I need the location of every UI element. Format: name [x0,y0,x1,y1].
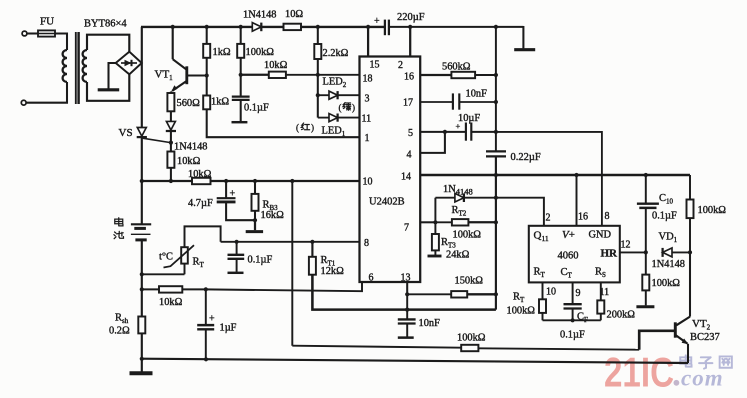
wire bridge to ground [109,63,116,89]
svg-text:t°C: t°C [159,252,173,263]
ground bridge [98,88,120,91]
svg-text:1N4148: 1N4148 [652,259,685,270]
svg-text:13: 13 [401,273,411,284]
resistor 100k mid right [645,252,647,274]
wire ground bus bottom [141,359,688,363]
svg-text:RT: RT [193,257,205,270]
svg-text:0.1µF: 0.1µF [244,103,269,114]
resistor 1k lower [206,76,208,96]
wire fuse to transformer primary [55,34,67,51]
wire supply bus [141,180,192,182]
ground RB3 [246,230,263,233]
junction 560k rail top [494,25,498,29]
capacitor 0.1uF upper [240,75,242,96]
svg-text:200kΩ: 200kΩ [607,310,636,321]
junction cap 0.1uF-2 [235,240,239,244]
resistor 100k bottom [461,345,478,351]
transistor VT2 BC237 [689,252,691,316]
resistor 100k top right [689,175,691,200]
junction 560k rail [494,73,498,77]
svg-text:10µF: 10µF [458,113,480,124]
wire pin4 to pin5 [420,132,445,153]
svg-text:CF: CF [577,312,588,325]
junction battery 10k row [140,287,144,291]
resistor RB3 16k [254,181,256,194]
resistor 10k to pin18 [269,72,286,78]
resistor RT2 100k [452,219,469,225]
junction 2.2k top [316,25,320,29]
resistor 100k [240,27,242,44]
svg-text:1N4148: 1N4148 [443,184,473,197]
svg-text:100kΩ: 100kΩ [652,278,681,289]
svg-text:12kΩ: 12kΩ [321,266,345,277]
svg-text:10kΩ: 10kΩ [188,169,212,180]
diode 1N4148 below 560 [170,111,172,121]
svg-text:0.1µF: 0.1µF [248,255,273,266]
transistor VT1 [172,27,174,59]
svg-text:14: 14 [401,172,411,183]
junction 10uF rail [494,130,498,134]
svg-text:10kΩ: 10kΩ [264,60,288,71]
svg-text:BC237: BC237 [690,332,720,343]
transformer T1 primary winding [63,50,67,82]
junction down-rail [290,179,294,183]
svg-text:4: 4 [407,150,412,161]
junction 150k rail [494,292,498,296]
resistor 10k vertical [170,143,172,152]
svg-text:2.2kΩ: 2.2kΩ [323,48,349,59]
wire VS to supply bus [141,137,143,181]
svg-text:11: 11 [362,114,372,125]
pin 12 wire HR [620,251,646,253]
junction RT2 rail [494,220,498,224]
svg-text:RT2: RT2 [452,205,467,218]
svg-text:(: ( [339,103,342,113]
svg-text:8: 8 [605,211,610,222]
diode VD1 1N4148 [663,248,672,257]
capacitor 10nF pin17 [420,101,452,103]
svg-text:GND: GND [589,230,612,241]
svg-text:10: 10 [546,287,556,298]
diode 1N4148 pin7 [435,197,455,199]
capacitor CF [564,303,582,305]
wire secondary bottom to bridge [87,74,129,101]
svg-text:0.1µF: 0.1µF [560,330,585,341]
junction 1k top [205,25,209,29]
pin 15 wire [367,27,369,57]
wire to top ground [522,26,524,48]
junction diode rail [494,196,498,200]
svg-text:10nF: 10nF [466,89,488,100]
wire top bus left [141,26,385,28]
junction 100k bottom [239,73,243,77]
svg-text:100kΩ: 100kΩ [507,306,536,317]
svg-text:1kΩ: 1kΩ [211,97,229,108]
junction 10k bottom on bus [169,179,173,183]
svg-text:LED2: LED2 [323,77,347,90]
svg-text:12: 12 [621,240,631,251]
resistor 10k bottom [142,288,159,290]
svg-text:560Ω: 560Ω [177,98,201,109]
capacitor C10 0.1uF [645,175,647,203]
resistor 2.2k [317,27,319,44]
svg-text:VD1: VD1 [659,232,678,245]
svg-text:1N4148: 1N4148 [174,142,207,153]
LED2 green [316,93,320,97]
wire terminal to fuse [27,32,38,34]
svg-text:10kΩ: 10kΩ [159,297,183,308]
svg-text:VT2: VT2 [692,318,711,332]
wire pin6 row [206,282,362,291]
svg-text:560kΩ: 560kΩ [442,62,471,73]
resistor 560k pin16 [420,74,451,76]
svg-text:21IC: 21IC [604,349,674,396]
svg-text:LED1: LED1 [322,126,346,139]
junction 10nF rail [494,100,498,104]
wire 560k rail [495,27,497,151]
svg-text:com: com [681,366,724,391]
capacitor 10uF pin5 [420,131,466,133]
wire to thermistor [142,273,185,275]
resistor 560 ohm [170,92,172,94]
svg-text:0.2Ω: 0.2Ω [109,326,130,337]
wire thermistor to pin8 row [185,226,221,247]
svg-text:11: 11 [600,287,610,298]
svg-text:100kΩ: 100kΩ [698,205,727,216]
junction 1uF top [204,287,208,291]
wire LED rail [317,75,319,118]
resistor RT1 12k [311,242,313,257]
junction RB3 [253,179,257,183]
wire rail to 4060 pin8 [496,132,602,226]
svg-text:4.7µF: 4.7µF [188,198,213,209]
capacitor 10nF pin13 [406,294,408,319]
svg-text:100kΩ: 100kΩ [453,230,482,241]
junction 4.7uF [224,179,228,183]
thermistor RT [184,264,186,275]
wire pin18 row [241,74,269,76]
svg-text:HR: HR [601,248,619,260]
junction VT1 collector [171,25,175,29]
wire pin7 up to diode [434,198,436,223]
svg-text:V+: V+ [562,229,575,241]
ground 100k mid [636,305,654,308]
svg-text:): ) [352,103,355,113]
ground main [141,359,143,372]
svg-text:8: 8 [364,238,369,249]
wire 1k to pin1 [207,109,360,137]
bridge rectifier BYT86x4 [116,52,142,75]
svg-text:100kΩ: 100kΩ [457,333,486,344]
svg-text:1kΩ: 1kΩ [213,47,231,58]
zener diode VS [137,128,146,137]
svg-text:10: 10 [363,177,373,188]
svg-text:220µF: 220µF [397,12,425,23]
wire RT CF RS common [543,319,601,321]
svg-text:16: 16 [404,72,414,83]
svg-text:15: 15 [370,60,380,71]
svg-text:4060: 4060 [558,251,579,262]
terminal input bottom [21,100,26,105]
junction pin2 [408,25,412,29]
svg-text:9: 9 [576,288,581,299]
resistor 10 ohm top [284,24,302,30]
capacitor 1uF [205,289,207,324]
svg-text:24kΩ: 24kΩ [446,250,470,261]
svg-text:10nF: 10nF [419,318,441,329]
wire pin8 row [221,241,360,243]
svg-text:U2402B: U2402B [369,197,405,208]
bridge diode symbol [121,62,137,64]
svg-text:VS: VS [119,127,133,139]
resistor Rsh 0.2ohm [138,317,145,334]
fuse FU [38,30,55,36]
junction battery thermistor [140,272,144,276]
svg-text:1: 1 [365,133,370,144]
svg-text:1µF: 1µF [220,323,237,334]
transformer secondary winding [83,50,87,82]
ground top right [514,48,535,51]
svg-text:3: 3 [365,94,370,105]
pin 11 wire [600,282,602,300]
wire 100k bottom row left [292,346,461,348]
wire 0.22uF to pin14 rail [495,156,497,309]
pin 16 wire V+ [576,175,578,226]
battery [141,181,143,224]
svg-text:Rsh: Rsh [115,313,129,326]
resistor RT3 24k [434,222,436,234]
svg-text:BYT86×4: BYT86×4 [84,19,127,30]
svg-text:+: + [209,314,215,325]
wire pin7 [420,221,435,223]
wire to VT2 base [639,331,675,350]
pin 9 wire [572,282,574,304]
svg-text:10Ω: 10Ω [285,9,303,20]
svg-text:(: ( [296,123,299,133]
junction VT1 base [205,73,209,77]
svg-text:RT: RT [513,292,525,305]
terminal input top [22,31,27,36]
wire pin 14 bus [420,174,690,177]
svg-text:0.22µF: 0.22µF [511,152,541,163]
capacitor 220uF [384,20,386,36]
IC U2402B [360,57,421,283]
resistor 200k [597,300,604,313]
resistor 10k on bus [192,178,211,184]
svg-text:VT1: VT1 [155,69,174,83]
junction rail-bus [140,179,144,183]
svg-text:7: 7 [404,223,409,234]
pin 10 wire [542,282,544,299]
junction RT1 top [310,240,314,244]
wire rail to 4060 pin2 [496,198,544,226]
svg-text:150kΩ: 150kΩ [455,276,484,287]
svg-text:+: + [374,16,380,27]
resistor 150k pin13 [406,282,408,294]
junction diode-10k [169,141,173,145]
capacitor 0.1uF lower [236,242,238,254]
IC 4060 [529,226,620,283]
wire secondary top to bridge [87,35,129,52]
transformer core [75,32,77,104]
junction pin15 [366,25,370,29]
junction 100k top [239,25,243,29]
junction VD1 VT2 [688,250,692,254]
svg-text:17: 17 [403,98,413,109]
svg-text:16: 16 [578,212,588,223]
wire rectifier output rail [141,27,143,128]
wire top bus right of capacitor [389,26,524,28]
wire battery rail down [141,274,143,316]
junction C10 HR [644,250,648,254]
capacitor 4.7uF [225,181,227,198]
svg-text:18: 18 [363,74,373,85]
LED1 red [318,117,329,119]
svg-text:6: 6 [369,273,374,284]
pin 2 wire [409,27,411,57]
svg-text:16kΩ: 16kΩ [261,210,285,221]
wire VS cathode to diode junction [143,138,171,142]
svg-text:2: 2 [398,60,403,71]
svg-text:): ) [311,123,314,133]
diode 1N4148 top [252,23,261,32]
wire RT1 bottom [312,275,496,310]
svg-text:2: 2 [546,213,551,224]
svg-text:5: 5 [408,128,413,139]
svg-text:10kΩ: 10kΩ [177,156,201,167]
wire bus down rail [291,181,293,346]
resistor 1k upper [206,27,208,44]
svg-text:1N4148: 1N4148 [243,10,276,21]
svg-text:C10: C10 [659,193,674,206]
resistor RT 100k 4060 [539,299,546,313]
svg-text:100kΩ: 100kΩ [246,47,275,58]
svg-text:0.1µF: 0.1µF [652,211,677,222]
junction pin18 LED rail [316,73,320,77]
watermark dianziwang [680,355,691,366]
capacitor 0.22uF [486,150,506,152]
wire primary bottom to terminal [26,82,67,103]
svg-text:FU: FU [40,16,54,28]
